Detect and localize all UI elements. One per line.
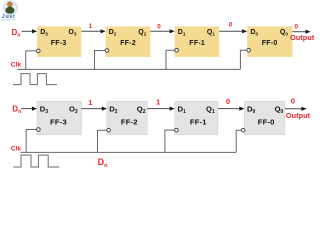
flip-flop FF-3 (top) bbox=[37, 26, 81, 57]
flip-flop FF-3 (bottom) bbox=[37, 101, 81, 134]
svg-text:0: 0 bbox=[157, 24, 161, 31]
flip-flop FF-0 (bottom) bbox=[244, 101, 285, 134]
clock bubble FF-0 (top) bbox=[247, 48, 251, 52]
svg-text:0: 0 bbox=[229, 21, 233, 28]
svg-text:FF-2: FF-2 bbox=[121, 117, 138, 126]
flip-flop FF-1 (top) bbox=[175, 26, 220, 57]
svg-text:FF-3: FF-3 bbox=[50, 117, 67, 126]
clock bubble FF-0 (bottom) bbox=[241, 128, 245, 132]
svg-text:0: 0 bbox=[291, 97, 295, 106]
svg-text:FF-3: FF-3 bbox=[51, 40, 67, 47]
svg-text:Output: Output bbox=[286, 111, 311, 120]
clock bubble FF-3 (top) bbox=[37, 49, 41, 53]
svg-text:FF-2: FF-2 bbox=[120, 40, 136, 47]
wire Din to FF-3 (bottom) bbox=[21, 108, 33, 110]
svg-text:Clk: Clk bbox=[11, 145, 22, 152]
logo bbox=[1, 0, 18, 21]
clock waveform (top) bbox=[13, 74, 57, 85]
wire clk to FF-1 bubble (bottom) bbox=[165, 130, 175, 152]
svg-text:FF-1: FF-1 bbox=[189, 40, 205, 47]
wire FF-2 to FF-1 (bottom) bbox=[147, 108, 170, 110]
clock distribution line (top) bbox=[17, 68, 240, 70]
svg-text:Output: Output bbox=[290, 33, 315, 42]
flip-flop FF-1 (bottom) bbox=[175, 101, 218, 134]
clock bubble FF-2 (top) bbox=[105, 49, 109, 53]
wire FF-1 to FF-0 (top) bbox=[219, 30, 243, 32]
wire clk to FF-1 bubble (top) bbox=[166, 50, 175, 69]
wire FF-1 to FF-0 (bottom) bbox=[218, 108, 240, 110]
wire FF-3 to FF-2 (bottom) bbox=[81, 108, 102, 110]
wire clk to FF-2 bubble (bottom) bbox=[98, 130, 107, 152]
svg-text:1: 1 bbox=[89, 23, 93, 30]
svg-text:ENGINEERING: ENGINEERING bbox=[1, 19, 15, 21]
clock waveform (bottom) bbox=[13, 155, 59, 167]
svg-text:Clk: Clk bbox=[11, 62, 22, 69]
wire Din to FF-3 (top) bbox=[22, 30, 33, 32]
wire clk to FF-2 bubble (top) bbox=[95, 51, 106, 70]
flip-flop FF-2 (top) bbox=[106, 26, 151, 57]
svg-text:0: 0 bbox=[226, 97, 230, 106]
clock bubble FF-2 (bottom) bbox=[107, 128, 111, 132]
wire FF-3 to FF-2 (top) bbox=[81, 30, 101, 32]
flip-flop FF-0 (top) bbox=[247, 26, 292, 57]
svg-text:FF-0: FF-0 bbox=[258, 117, 275, 126]
wire clk to FF-3 bubble (top) bbox=[26, 51, 37, 70]
flip-flop FF-2 (bottom) bbox=[107, 101, 147, 134]
svg-text:0: 0 bbox=[295, 24, 299, 31]
clock bubble FF-1 (bottom) bbox=[175, 128, 179, 132]
clock distribution line (bottom) bbox=[21, 151, 237, 153]
wire clk to FF-3 bubble (bottom) bbox=[26, 130, 36, 153]
wire clk to FF-0 bubble (bottom) bbox=[236, 130, 241, 152]
wire FF-0 to Output (top) bbox=[292, 31, 306, 33]
wire FF-0 to Output (bottom) bbox=[285, 108, 302, 110]
wire FF-2 to FF-1 (top) bbox=[150, 30, 170, 32]
wire clk to FF-0 bubble (top) bbox=[240, 50, 246, 69]
clock bubble FF-3 (bottom) bbox=[37, 128, 41, 132]
svg-text:FF-0: FF-0 bbox=[262, 40, 278, 47]
clock bubble FF-1 (top) bbox=[175, 48, 179, 52]
svg-text:FF-1: FF-1 bbox=[190, 117, 207, 126]
